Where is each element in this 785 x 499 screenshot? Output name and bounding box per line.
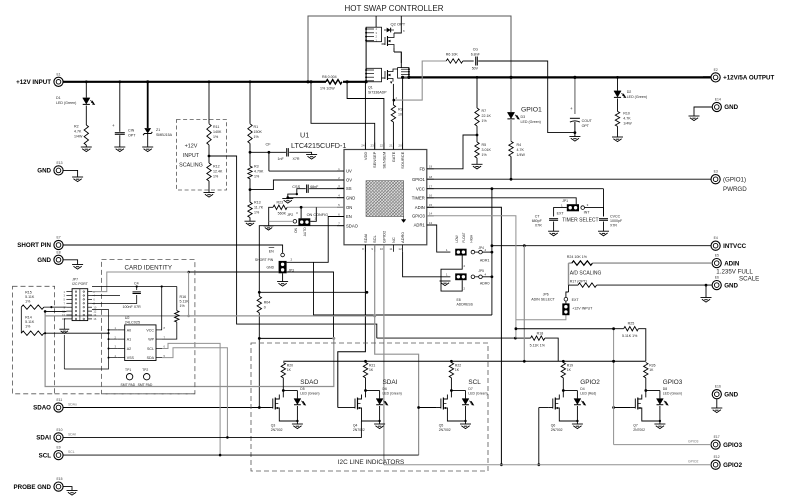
wire gate node to R6 [394,61,446,100]
LED D3 green [507,112,514,118]
wire VCC to INTVCC [491,189,493,277]
wire GPIO1 column [510,77,512,112]
svg-text:UV: UV [346,169,352,174]
svg-text:CIN: CIN [128,129,135,133]
svg-text:SENSEP: SENSEP [372,151,377,168]
wire Q1 left bus [365,68,367,82]
wire INTVCC line [492,245,711,247]
wire SENSEM tap [347,82,384,150]
pin 16 TIMER [427,197,434,199]
wire INTVCC bus down [491,277,493,315]
svg-text:E2: E2 [714,68,718,72]
pad JP2 auto [293,220,297,224]
ground JP3 [277,281,288,283]
svg-text:150K: 150K [254,130,263,134]
dashed box edge connector [13,286,55,394]
svg-text:JP6: JP6 [543,292,549,296]
svg-text:23: 23 [371,144,375,148]
ground CT [548,230,559,232]
wire R23 left to low row [269,207,273,221]
wire E14 to ground [694,107,712,116]
svg-text:R26: R26 [649,364,655,368]
resistor R22 1K [449,363,453,378]
svg-text:GND: GND [724,391,738,398]
wire R20 to node [282,378,284,391]
svg-text:R1: R1 [254,125,259,129]
wire rail to D2 [617,77,619,90]
svg-text:5.11K 1%: 5.11K 1% [530,344,546,348]
resistor R18 5.11K [515,337,530,339]
resistor R10 4.7K [615,111,619,126]
svg-text:VSS: VSS [127,356,135,360]
svg-text:I2C PORT: I2C PORT [72,282,88,286]
wire ON pin row [287,206,344,208]
wire R5 to ground [476,158,478,164]
pin 6 EN [337,216,344,218]
svg-text:GPIO3: GPIO3 [688,440,698,444]
svg-text:GND: GND [37,168,51,175]
pin 11 NC [392,245,394,252]
svg-text:11.7K: 11.7K [254,206,264,210]
wire R19 to node [562,378,564,391]
svg-text:VCC: VCC [416,186,425,191]
svg-text:R21: R21 [369,364,375,368]
svg-text:SHORT PIN: SHORT PIN [17,242,51,249]
svg-text:24LC025: 24LC025 [125,320,140,324]
svg-text:1K: 1K [649,368,654,372]
svg-text:R13: R13 [254,201,261,205]
svg-text:E15: E15 [57,477,63,481]
svg-text:LTC4215CUFD-1: LTC4215CUFD-1 [291,141,346,150]
wire U2 address pins chain [64,310,108,370]
pin 9 SCL [374,245,376,252]
wire card identity SDA bus [45,316,334,387]
svg-text:560K: 560K [278,211,287,215]
wire JP1 to CT [554,208,567,217]
svg-text:ADR1: ADR1 [414,223,426,228]
ground Q3 [292,423,303,425]
svg-text:GPIO1: GPIO1 [521,107,542,114]
svg-text:11: 11 [389,247,392,251]
svg-text:2N7002: 2N7002 [353,428,365,432]
pin 15 ADIN [427,206,434,208]
resistor R8 0.004 sense [326,80,342,84]
wire divider tap down [209,156,377,338]
svg-text:LED (Red): LED (Red) [580,392,596,396]
drain ladder Q1 [398,68,409,79]
wire ADIN pin down [427,207,502,464]
wire Q2 drain [394,16,401,33]
wire rail to R11 [208,82,210,124]
svg-text:SCL: SCL [39,452,52,459]
svg-text:1K: 1K [369,368,374,372]
svg-text:LED (Green): LED (Green) [521,120,541,124]
svg-text:68nF: 68nF [310,185,319,189]
wire R24 to E6 [593,262,713,264]
svg-text:PROBE GND: PROBE GND [14,484,52,491]
svg-text:SDA: SDA [147,356,155,360]
svg-text:EN: EN [269,249,274,253]
svg-text:E17: E17 [714,435,720,439]
pin 12 ADR0 [402,245,404,252]
terminal E6 ADIN [712,259,721,268]
svg-text:SCL: SCL [372,234,377,243]
wire C4 bottom to JP7 row [92,295,137,304]
svg-text:OPT: OPT [582,124,590,128]
svg-text:R25: R25 [628,322,635,326]
mosfet symbol Q2 [387,36,389,46]
resistor R13 11.7K [248,202,252,217]
svg-text:17: 17 [429,185,433,189]
svg-text:18: 18 [429,175,433,179]
svg-text:1000pF: 1000pF [610,219,623,223]
ground E8 net [705,285,707,297]
svg-text:14: 14 [429,212,433,216]
LED D8 [646,390,660,392]
svg-text:5.11K: 5.11K [180,299,190,303]
svg-text:A2: A2 [127,347,131,351]
wire ADIN ext line [569,262,572,264]
wire OV node row [250,151,286,153]
svg-text:E8: E8 [457,298,461,302]
svg-text:X7R: X7R [293,157,300,161]
resistor R2 4.7K [84,125,88,145]
wire R14 to U2 chain [44,332,109,334]
wire rail to R7 [476,77,478,108]
wire R10 to ground [617,126,619,137]
pad JP3 top [281,253,285,257]
wire E2 stub [703,76,711,78]
resistor R20 1K [281,363,285,378]
svg-text:SDAo: SDAo [68,403,77,407]
dashed box card identity [102,260,195,394]
svg-text:OV: OV [346,178,352,183]
svg-text:1%: 1% [25,299,31,303]
svg-text:GPIO2: GPIO2 [580,379,600,386]
svg-text:GATE: GATE [391,151,396,162]
svg-text:SMT PAD: SMT PAD [121,383,136,387]
wire E9 SCL route [63,454,419,456]
svg-text:20: 20 [398,144,402,148]
svg-text:TP2: TP2 [142,368,148,372]
wire R26 to node [645,378,647,391]
svg-text:13: 13 [429,221,433,225]
transistor Q1 Si7336ADP [366,68,381,82]
terminal E17 GPIO3 [711,440,720,449]
svg-text:GPIO3: GPIO3 [412,213,425,218]
wire GPIO1 pin to E3 [427,178,711,180]
terminal E10 SDAI [54,433,63,442]
svg-text:R2: R2 [74,125,79,129]
wire FB node to FB pin [427,135,477,169]
svg-text:VDD: VDD [363,152,368,161]
svg-text:D7: D7 [468,387,472,391]
svg-text:24: 24 [361,144,365,148]
capacitor CT 680pF X7R [549,218,558,220]
svg-text:D5: D5 [300,387,304,391]
svg-text:22: 22 [380,144,384,148]
svg-text:Q7: Q7 [633,424,638,428]
svg-text:R15: R15 [25,290,32,294]
svg-text:GPIO2: GPIO2 [381,230,386,243]
pin 14 GPIO3 [427,215,434,217]
terminal E8 GND right [712,281,721,290]
svg-text:Z1: Z1 [156,128,160,132]
svg-text:R22: R22 [455,364,461,368]
svg-text:1K: 1K [567,368,572,372]
svg-text:CVCC: CVCC [610,215,621,219]
wire R11 to R12 junction [208,145,210,163]
svg-text:E3: E3 [714,170,718,174]
wire mid bus [314,314,492,316]
wire JP3 branch to bus [313,262,315,316]
svg-text:ON: ON [346,205,352,210]
svg-text:D2: D2 [627,90,632,94]
wire E15 to ground [63,487,72,491]
wire R1 to OV node [249,143,251,166]
svg-text:GND: GND [37,257,51,264]
wire JP7 bus taps [45,310,66,312]
pin 13 ADR1 [427,224,434,226]
svg-text:R3: R3 [254,165,259,169]
wire EXT pad from R24 node [568,285,570,292]
wire Q2 to Q1 drain [400,52,402,68]
wire JP4 high to INTVCC bus [482,251,492,253]
wire JP7 ground column down [63,335,65,369]
svg-text:ADIN: ADIN [415,205,425,210]
wire SS pin to CSS [309,188,344,190]
svg-text:SCL: SCL [68,450,75,454]
wire COUT to ground [574,122,576,137]
svg-text:D3: D3 [521,115,526,119]
svg-text:(GPIO1): (GPIO1) [723,176,746,183]
svg-text:1% 1/2W: 1% 1/2W [320,87,335,91]
wire D2 to R10 [617,99,619,112]
svg-text:Q5: Q5 [439,424,444,428]
wire SOURCE pin to rail [402,77,404,149]
svg-text:4.7K: 4.7K [623,117,631,121]
pin U2 8 VCC [156,329,162,331]
wire R9 to GATE pin [392,122,394,150]
svg-text:1%: 1% [482,119,488,123]
ground Q6 [572,423,583,425]
svg-text:WP: WP [148,338,154,342]
wire JP3 to EN pin [287,217,344,263]
svg-text:12: 12 [398,247,402,251]
wire SDAO pin7 route [259,226,344,297]
svg-text:+12V/5A OUTPUT: +12V/5A OUTPUT [723,75,774,82]
LED D2 green [614,91,621,97]
svg-text:E14: E14 [715,98,721,102]
ground Q7 [654,423,665,425]
ground R10 [612,136,623,138]
capacitor CG 6.8nF 50V [475,57,477,66]
wire GPIO2 gate feed [538,408,540,465]
wire Q4 source to LED cathode [362,413,380,422]
capacitor CVCC 1000pF X7R [599,218,608,220]
svg-text:R12: R12 [213,165,220,169]
wire R24 corner to JP6 [568,263,570,285]
wire GPIO3 to E17 [614,444,711,446]
svg-text:22.1K: 22.1K [482,114,492,118]
wire R17 to E8 GND [597,284,713,286]
LED D4 [563,390,577,392]
svg-text:E16: E16 [715,385,721,389]
wire indicator pullup rail [283,360,646,362]
svg-text:E5: E5 [715,254,719,258]
wire Q2 source down [393,48,395,52]
svg-text:Q6: Q6 [551,424,556,428]
svg-text:FLOAT: FLOAT [462,233,466,243]
svg-text:E4: E4 [714,236,718,240]
svg-text:E11: E11 [57,398,63,402]
wire CIN branch [119,82,121,132]
wire row H2 [92,295,120,297]
LED D7 [451,390,465,392]
svg-text:TP1: TP1 [125,368,131,372]
terminal E12 GPIO2 [711,460,720,469]
svg-text:R24 10K 1%: R24 10K 1% [567,255,588,259]
wire CIN to ground [119,135,121,147]
svg-text:E13: E13 [57,161,63,165]
ground COUT [569,136,580,138]
wire JP7 ground [64,319,66,329]
svg-text:R17 (OPT): R17 (OPT) [570,280,587,284]
wire SENSEP tap [311,82,375,150]
wire R04 to SDAO wire [258,313,260,408]
svg-text:1%: 1% [213,135,219,139]
ground Z1 [142,146,153,148]
svg-text:SDAO: SDAO [346,223,359,228]
wire gate bypass top [308,16,511,82]
svg-text:5.11K 1%: 5.11K 1% [622,334,638,338]
svg-text:2N7002: 2N7002 [271,428,283,432]
wire E13 to ground [63,170,78,177]
svg-text:GND: GND [346,195,355,200]
svg-text:R19: R19 [567,364,573,368]
jumper JP3 [279,261,287,273]
wire TIMER pin to JP1 [427,198,576,204]
ground E5 [72,264,83,266]
resistor R1 150K [248,124,252,144]
wire U2 SDA out [162,348,227,438]
wire JP5 low stub [441,280,462,291]
pin U2 2 A1 [118,338,125,340]
transistor Q4 2N7002 [365,391,367,398]
transistor Q3 2N7002 [282,391,284,398]
LED D6 [366,390,380,392]
svg-text:JP2: JP2 [287,213,293,217]
transistor Q6 2N7002 [562,391,564,398]
wire Q7 source to LED cathode [642,413,660,422]
svg-text:GPIO3: GPIO3 [723,442,742,449]
svg-text:EXT: EXT [557,211,565,215]
svg-text:R5: R5 [482,143,487,147]
svg-text:5.11K: 5.11K [25,295,35,299]
terminal E13 GND [54,166,63,175]
svg-text:R18: R18 [537,331,544,335]
svg-text:R14: R14 [25,315,32,319]
wire Q1 gate to R9 [392,84,394,105]
svg-text:+12V: +12V [185,144,198,150]
wire R7 to FB node [476,126,478,142]
svg-text:E7: E7 [57,236,61,240]
terminal E4 INTVCC [711,241,720,250]
wire I2C exit down to bus [188,272,190,316]
wire +12V rail input segment [63,81,326,83]
svg-text:ADIN: ADIN [724,260,740,267]
wire R15 R14 left tie [20,307,22,333]
pin 3 SS [337,187,344,189]
pin 24 VDD [364,143,366,150]
ground R2 [81,146,92,148]
svg-text:19: 19 [429,165,433,169]
ground E15 [67,490,78,492]
svg-text:1nF: 1nF [278,157,285,161]
svg-text:SENSEM: SENSEM [381,152,386,169]
wire R21 to node [365,378,367,391]
svg-text:16: 16 [429,194,433,198]
svg-text:+12V INPUT: +12V INPUT [16,79,51,86]
resistor R24 10K [572,261,593,265]
ground E13 [72,176,83,178]
dashed box I2C line indicators [251,343,488,471]
terminal E3 (GPIO1) PWRGD [711,175,720,184]
wire rail to R1 [249,82,251,124]
wire R4 to GPIO1 line [510,156,512,179]
pin 19 FB [427,168,434,170]
svg-text:ADDRESS: ADDRESS [457,302,474,306]
pin 23 SENSEP [374,143,376,150]
svg-text:INTVCC: INTVCC [723,243,747,250]
resistor R9 10 [391,105,395,122]
svg-text:ON: ON [294,227,298,232]
capacitor CF 1nF X7R [286,148,288,156]
wire JP4 low stub [441,256,462,282]
svg-text:1%: 1% [254,211,260,215]
wire Z1 branch [147,82,149,128]
pin 8 SDAI [364,245,366,252]
svg-text:ADR1: ADR1 [480,259,490,263]
wire Q6 source to LED cathode [559,413,577,422]
transistor Q7 2N7002 [645,391,647,398]
svg-text:LED (Green): LED (Green) [663,392,682,396]
svg-text:R20: R20 [287,364,293,368]
wire JP2 low row to ground [269,220,293,222]
svg-text:1%: 1% [254,135,260,139]
svg-text:COUT: COUT [582,119,593,123]
svg-text:SDAI: SDAI [36,435,51,442]
pin U2 5 SDA [156,357,162,359]
svg-text:1/4W: 1/4W [74,135,83,139]
wire gate Q5 [419,407,437,409]
svg-text:A1: A1 [127,338,131,342]
wire JP6 top pad [565,301,567,303]
wire JP3 lower pad branch [287,272,334,338]
svg-text:0: 0 [264,306,266,310]
svg-text:PWRGD: PWRGD [723,186,747,193]
wire D3 to R4 [510,120,512,141]
svg-text:SDAI: SDAI [363,234,368,243]
pin U2 1 A0 [118,329,125,331]
pin 22 SENSEM [383,143,385,150]
svg-text:1/4W: 1/4W [623,122,632,126]
pin 5 ON [337,206,344,208]
wire JP1 to CVCC [585,208,604,217]
terminal E2 +12V/5A OUTPUT [711,73,720,82]
svg-text:1%: 1% [180,304,186,308]
svg-text:Q4: Q4 [353,424,358,428]
